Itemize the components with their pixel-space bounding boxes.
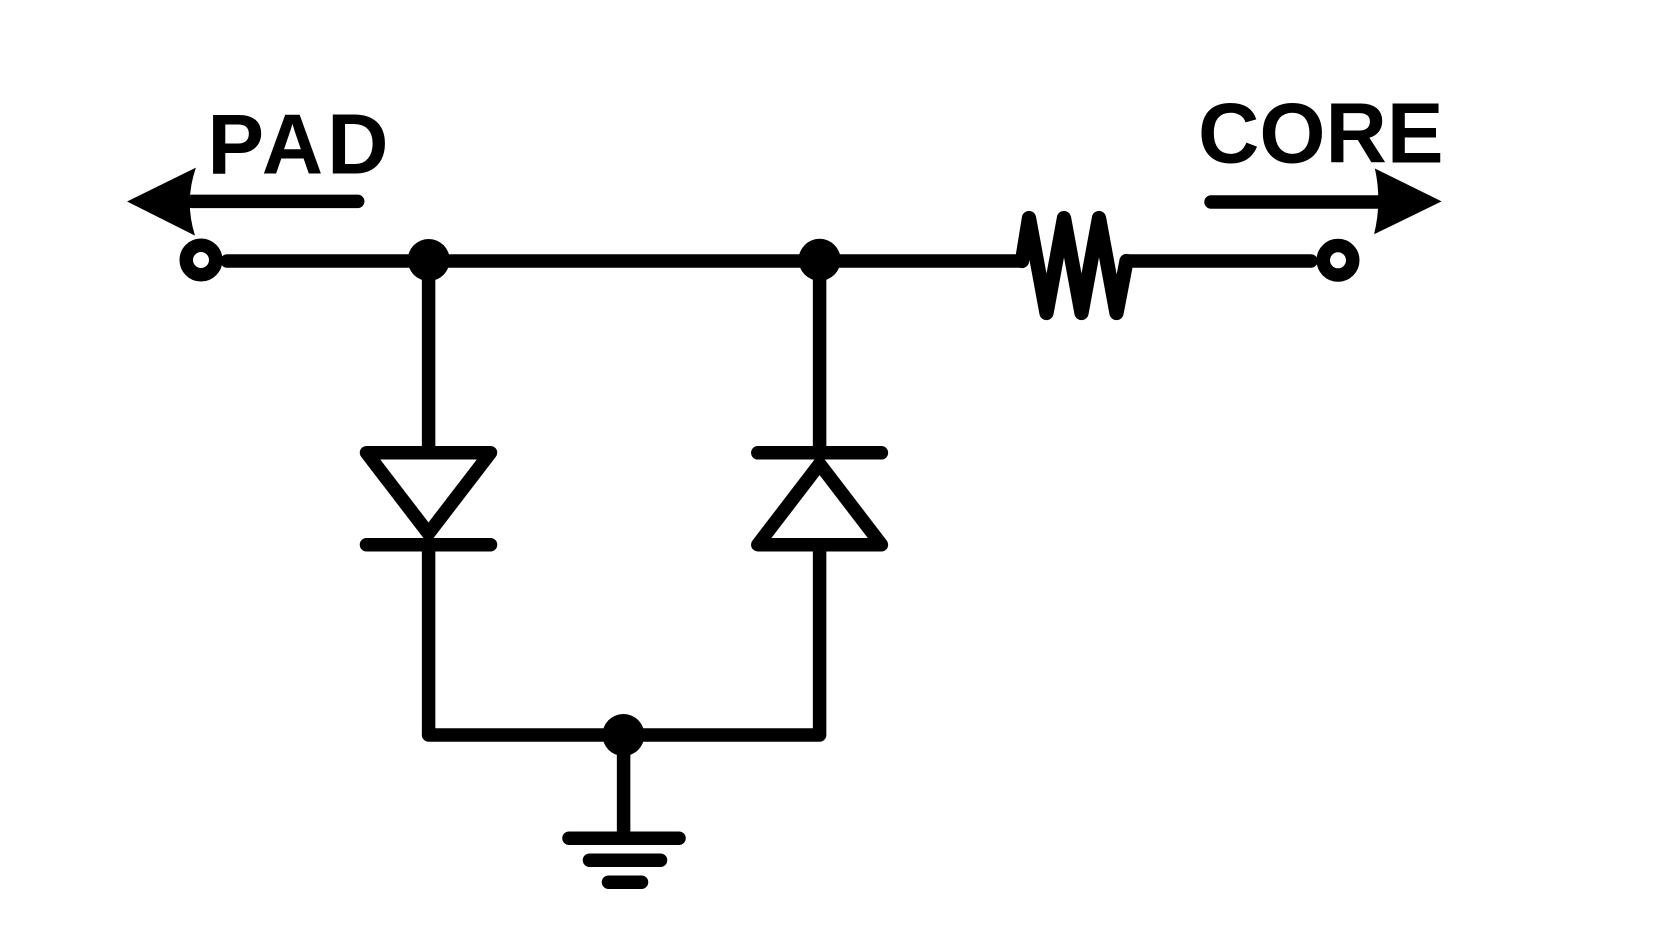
ground bar 1	[569, 831, 679, 845]
diode D1 (triangle, pointing down)	[367, 453, 491, 534]
wire: resistor to CORE terminal	[1127, 254, 1312, 268]
junction node: pad/left-diode	[408, 239, 450, 281]
junction node: right-diode/resistor	[799, 239, 841, 281]
CORE arrow shaft	[1211, 195, 1378, 209]
PAD terminal (open circle)	[186, 245, 216, 275]
resistor R (zigzag)	[1022, 218, 1127, 313]
PAD arrow shaft	[192, 195, 358, 209]
CORE terminal (open circle)	[1323, 246, 1353, 276]
diode D1 cathode bar	[367, 538, 491, 552]
wire: PAD terminal to resistor (top net)	[227, 254, 1022, 268]
wire: right diode top lead	[813, 261, 827, 453]
svg-text:CORE: CORE	[1198, 87, 1444, 182]
ground bar 3	[609, 875, 642, 889]
wire: left diode top lead	[422, 261, 436, 453]
CORE arrowhead	[1374, 169, 1442, 235]
wire: ground stub	[617, 735, 631, 838]
wire: bottom U net joining both diodes	[429, 545, 820, 735]
diode D2 cathode bar (top)	[758, 446, 882, 460]
PAD arrowhead	[127, 168, 196, 236]
diode D2 (triangle, pointing up)	[758, 464, 882, 545]
svg-text:PAD: PAD	[207, 98, 392, 193]
ground bar 2	[590, 853, 661, 867]
junction node: bottom/ground	[602, 714, 644, 756]
